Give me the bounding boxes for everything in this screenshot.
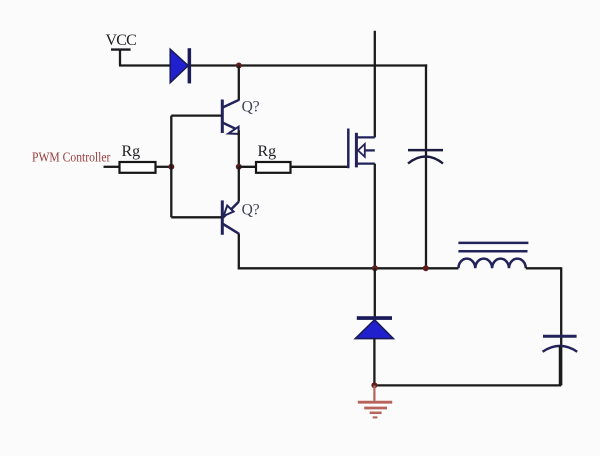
mosfet U1 drain lead — [356, 136, 374, 138]
diode D2 anode triangle — [355, 320, 393, 339]
transistor Q1 emitter diagonal — [223, 123, 239, 131]
resistor Rg1 — [120, 162, 156, 173]
svg-text:Q?: Q? — [242, 202, 260, 219]
ground bar 1 — [358, 401, 392, 404]
capacitor C1 curved plate — [408, 157, 443, 164]
transistor Q2 collector diagonal — [223, 224, 239, 234]
wire lower rail right of inductor — [526, 267, 561, 269]
wire cap1 branch vertical — [425, 64, 427, 268]
wire Q2 collector down — [238, 234, 240, 270]
wire top rail — [119, 64, 427, 66]
node dot cap1 bottom on lower rail — [423, 265, 429, 271]
inductor L1 winding — [458, 259, 525, 269]
wire right branch vertical — [560, 267, 562, 385]
wire Q1 emitter down — [238, 130, 240, 167]
wire lower rail left — [238, 267, 459, 269]
svg-text:Rg: Rg — [258, 143, 277, 160]
node dot switch node on lower rail — [372, 265, 378, 271]
transistor Q2 (PNP lower) emitter wire — [238, 167, 240, 202]
wire Q1 base lead — [171, 114, 221, 116]
capacitor C2 top plate — [543, 335, 577, 338]
wire PWM output — [104, 166, 120, 168]
mosfet U1 body arrow — [358, 144, 365, 157]
wire switch node to diode D2 — [374, 268, 376, 316]
transformer core line lower — [458, 250, 527, 253]
mosfet U1 gate bar — [347, 129, 350, 169]
diode D1 anode triangle — [170, 49, 188, 82]
transistor Q1 collector diagonal — [223, 100, 239, 108]
transistor Q1 base bar — [221, 100, 224, 134]
ground bar 4 — [373, 416, 378, 418]
transformer core line upper — [458, 242, 528, 245]
wire cap2 bottom lead — [559, 346, 561, 386]
svg-text:PWM Controller: PWM Controller — [32, 150, 111, 165]
transistor Q2 emitter diagonal — [223, 202, 239, 218]
ground bar 3 — [370, 412, 382, 415]
wire Q2 base lead — [171, 216, 221, 218]
svg-text:Q?: Q? — [242, 99, 260, 116]
capacitor C2 curved plate — [543, 346, 578, 352]
transistor Q1 (NPN upper) collector wire — [238, 66, 240, 101]
diode D1 cathode bar — [188, 48, 192, 83]
resistor Rg2 — [256, 162, 291, 173]
wire emitters to Rg2 — [239, 166, 256, 168]
wire VCC stub down — [119, 50, 121, 66]
wire switch-node vertical upper — [374, 31, 376, 138]
wire Rg2 to gate — [291, 166, 349, 168]
capacitor C1 top plate — [408, 149, 443, 152]
node dot ground junction — [371, 382, 377, 388]
mosfet U1 source lead — [356, 162, 374, 164]
svg-text:VCC: VCC — [106, 32, 137, 49]
ground bar 2 — [364, 407, 387, 410]
mosfet U1 channel bar — [355, 133, 358, 168]
diode D2 cathode bar — [357, 316, 392, 320]
node dot emitters junction — [236, 164, 242, 170]
wire diode D2 anode to ground rail — [373, 338, 375, 385]
mosfet U1 body lead — [364, 149, 375, 151]
wire base bus vertical — [170, 116, 172, 218]
node dot top rail / Q1 collector — [236, 63, 242, 69]
svg-text:Rg: Rg — [122, 143, 141, 160]
node dot base bus — [168, 164, 174, 170]
wire Rg1 to base bus — [156, 166, 172, 168]
transistor Q2 emitter arrow — [224, 206, 234, 217]
transistor Q2 base bar — [221, 200, 224, 234]
wire bottom rail — [374, 384, 561, 386]
wire mosfet source down — [374, 164, 376, 269]
transistor Q1 emitter arrow — [228, 127, 238, 134]
VCC terminal bar — [111, 48, 131, 50]
ground stub — [373, 385, 375, 400]
